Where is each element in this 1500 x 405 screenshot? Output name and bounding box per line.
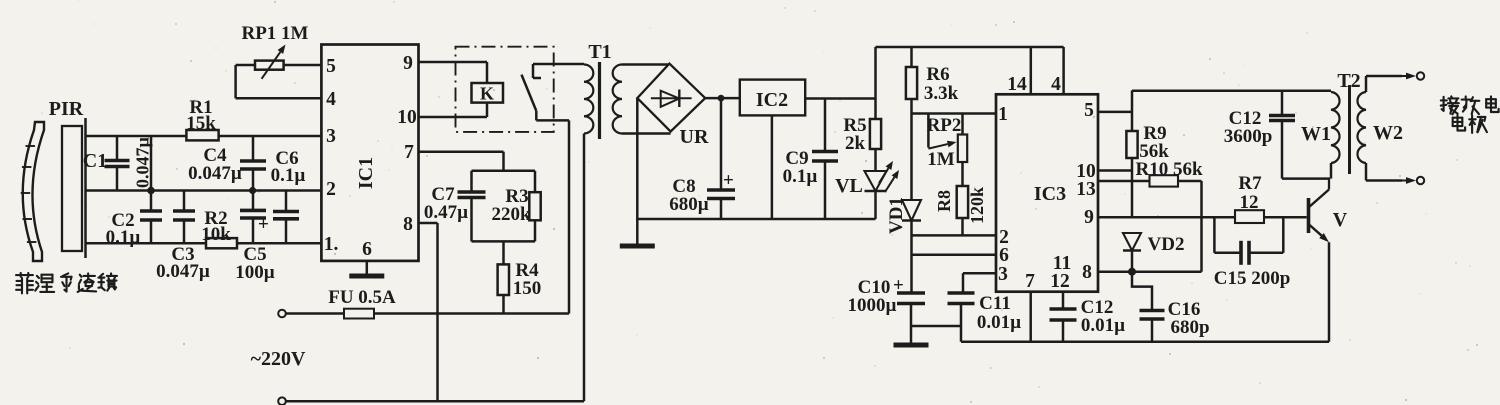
- label R5 2k: [843, 115, 866, 154]
- resistor R5: [870, 99, 881, 150]
- wire W1 bottom to collector: [1282, 177, 1330, 180]
- capacitor C7 / resistor R3 parallel block: [458, 171, 541, 242]
- label R7 12: [1238, 173, 1262, 213]
- wire IC3 pin14 stub: [1030, 47, 1033, 94]
- svg-text:150: 150: [513, 278, 542, 299]
- ground at IC1 pin6: [349, 261, 384, 276]
- wire relay contact to T1 primary: [533, 63, 584, 66]
- label R2 10k: [201, 208, 231, 245]
- svg-text:5: 5: [326, 56, 336, 77]
- capacitor C1: [105, 136, 130, 191]
- svg-text:5: 5: [1084, 100, 1094, 121]
- svg-text:R6: R6: [926, 64, 949, 85]
- label Fresnel lens (Chinese): [16, 273, 117, 293]
- wire pin3 rail: [86, 135, 322, 138]
- svg-text:220k: 220k: [491, 204, 531, 225]
- svg-text:2: 2: [326, 179, 336, 200]
- svg-text:0.01µ: 0.01µ: [977, 312, 1021, 333]
- Fresnel lens: [21, 122, 44, 261]
- wire supply top rail: [876, 47, 1064, 99]
- transistor V: [1309, 179, 1330, 342]
- terminal electrode top: [1402, 72, 1424, 79]
- wire IC3 pin9 to transistor base: [1098, 216, 1307, 219]
- relay K enclosure dash-dot box: [456, 47, 554, 132]
- svg-text:14: 14: [1007, 74, 1027, 95]
- PIR sensor: [62, 118, 86, 258]
- svg-text:+: +: [893, 275, 904, 296]
- svg-text:R8: R8: [934, 190, 954, 212]
- label C9 0.1u: [783, 148, 818, 187]
- label C6 0.1u: [271, 148, 306, 186]
- svg-text:R7: R7: [1238, 173, 1262, 194]
- svg-text:0.47µ: 0.47µ: [424, 202, 468, 223]
- ground symbol at C10: [910, 326, 913, 343]
- svg-text:15k: 15k: [186, 113, 216, 134]
- op-amp IC1: [321, 45, 418, 261]
- capacitor C16: [1132, 272, 1165, 342]
- wire pin1 rail: [86, 242, 322, 245]
- svg-text:1M: 1M: [927, 149, 955, 170]
- svg-text:C1: C1: [83, 150, 107, 172]
- transformer T1 secondary winding: [613, 65, 671, 134]
- terminal AC line 2: [278, 397, 286, 405]
- svg-text:7: 7: [1025, 271, 1035, 292]
- wire IC1 pin7: [419, 152, 504, 171]
- wire IC3 pin13 / resistor R10: [1098, 175, 1202, 272]
- wire IC1 pin10 to relay coil: [419, 116, 488, 119]
- wire IC3 pin5: [1098, 90, 1132, 131]
- capacitor C10 electrolytic: [893, 275, 961, 326]
- svg-text:0.01µ: 0.01µ: [1081, 315, 1125, 336]
- bridge rectifier UR: [637, 64, 705, 132]
- svg-text:T1: T1: [588, 41, 611, 63]
- svg-text:PIR: PIR: [49, 98, 84, 120]
- svg-text:VD1: VD1: [886, 197, 907, 234]
- label C10 1000u: [848, 277, 897, 316]
- transformer T2 winding W2: [1357, 76, 1402, 181]
- svg-text:3.3k: 3.3k: [924, 83, 959, 104]
- svg-text:3: 3: [326, 126, 336, 147]
- wire relay contact to fuse line: [568, 120, 571, 313]
- svg-text:100µ: 100µ: [235, 262, 275, 283]
- svg-text:W1: W1: [1301, 123, 1331, 145]
- svg-text:9: 9: [1084, 207, 1094, 228]
- wire bridge output to IC2: [705, 95, 740, 102]
- svg-text:680µ: 680µ: [669, 194, 709, 215]
- svg-text:0.1µ: 0.1µ: [271, 165, 306, 186]
- resistor R8: [957, 186, 968, 235]
- transformer T2 winding W1: [1331, 92, 1340, 179]
- resistor R6: [906, 47, 917, 200]
- ground symbol at rectifier: [636, 219, 639, 244]
- label R3 220k: [491, 186, 531, 225]
- wire IC2 ground lead: [771, 115, 774, 219]
- capacitor C12 0.01u: [1050, 292, 1077, 342]
- svg-text:0.047µ: 0.047µ: [156, 261, 210, 282]
- label C5 100u: [235, 244, 275, 283]
- wire IC1 pin8 down: [419, 223, 438, 401]
- capacitor C15: [1214, 217, 1283, 265]
- capacitor C4: [240, 136, 266, 194]
- wire top right rail to T2: [1132, 90, 1331, 93]
- potentiometer RP2: [928, 114, 967, 187]
- svg-text:12: 12: [1240, 192, 1259, 213]
- svg-text:T2: T2: [1337, 70, 1360, 92]
- svg-text:9: 9: [403, 53, 413, 74]
- svg-text:3: 3: [998, 264, 1008, 285]
- wire IC3 pin3: [963, 273, 996, 293]
- svg-text:6: 6: [362, 239, 372, 260]
- svg-text:1000µ: 1000µ: [848, 295, 897, 316]
- svg-text:6: 6: [999, 245, 1009, 266]
- resistor R2: [206, 238, 237, 248]
- svg-text:0.047µ: 0.047µ: [133, 137, 153, 189]
- svg-text:FU 0.5A: FU 0.5A: [328, 287, 396, 308]
- label C16 680p: [1168, 299, 1210, 338]
- svg-text:13: 13: [1076, 179, 1096, 200]
- label C4 0.047u: [188, 145, 242, 184]
- wire IC2 output: [805, 97, 875, 100]
- label R4 150: [513, 260, 542, 299]
- capacitor C8 electrolytic: [707, 98, 735, 219]
- IC3 pin numbers: [998, 74, 1096, 292]
- wire IC3 pin1: [912, 112, 997, 115]
- wire IC3 pin10: [1098, 169, 1132, 172]
- label RP2 1M: [927, 115, 962, 170]
- svg-text:4: 4: [1051, 74, 1061, 95]
- svg-text:W2: W2: [1373, 122, 1403, 144]
- svg-text:1: 1: [998, 104, 1008, 125]
- transformer T1 primary winding: [584, 65, 593, 402]
- label C3 0.047u: [156, 244, 210, 282]
- capacitor C2: [140, 191, 162, 244]
- relay contact switch: [522, 64, 570, 120]
- capacitor C12 3600p: [1269, 91, 1295, 179]
- label C7 0.47u: [424, 184, 468, 223]
- fuse FU: [286, 309, 569, 319]
- resistor R7: [1235, 210, 1264, 223]
- potentiometer RP1: [236, 45, 322, 99]
- label R1 15k: [186, 97, 216, 134]
- label R8 120k rotated: [934, 187, 987, 224]
- capacitor C3: [173, 191, 195, 244]
- svg-text:+: +: [258, 214, 269, 235]
- diode VD1: [902, 200, 921, 293]
- label electrodes (Chinese): [1441, 96, 1499, 132]
- ground rail bottom: [636, 218, 875, 221]
- svg-text:VD2: VD2: [1148, 234, 1185, 255]
- wire IC3 pin8: [1098, 270, 1202, 273]
- capacitor C11: [948, 293, 975, 342]
- regulator IC2: [740, 80, 805, 116]
- svg-text:K: K: [480, 84, 494, 104]
- label C12 3600p: [1224, 108, 1273, 147]
- label C11 0.01u: [977, 293, 1021, 333]
- terminal AC line 1: [278, 310, 286, 318]
- wire IC3 pin4 stub: [1062, 47, 1065, 94]
- wire bottom rail right: [961, 340, 1329, 343]
- capacitor C6: [273, 191, 299, 244]
- svg-text:RP1 1M: RP1 1M: [241, 23, 308, 44]
- svg-text:~220V: ~220V: [251, 348, 306, 370]
- svg-text:10k: 10k: [201, 224, 231, 245]
- transformer T2 core: [1348, 85, 1351, 174]
- svg-text:IC2: IC2: [756, 89, 788, 111]
- svg-text:0.1µ: 0.1µ: [783, 166, 818, 187]
- resistor R4: [498, 241, 509, 313]
- svg-text:IC1: IC1: [355, 157, 377, 189]
- svg-text:0.1µ: 0.1µ: [106, 227, 141, 248]
- svg-text:UR: UR: [680, 126, 709, 148]
- capacitor C5 electrolytic: [240, 191, 269, 244]
- svg-text:V: V: [1333, 209, 1348, 231]
- svg-text:2k: 2k: [845, 133, 866, 154]
- svg-text:RP2: RP2: [927, 115, 962, 136]
- label C2 0.1u: [106, 210, 141, 248]
- wire vertical junction: [147, 136, 155, 194]
- wire bridge negative down: [636, 98, 639, 219]
- svg-text:120k: 120k: [967, 187, 987, 224]
- resistor R1: [186, 130, 218, 140]
- wire IC3 pin6: [912, 253, 997, 256]
- relay coil K: [472, 62, 504, 117]
- IC1 pin numbers: [324, 53, 417, 260]
- svg-text:C15 200p: C15 200p: [1214, 268, 1291, 289]
- terminal electrode bottom: [1402, 177, 1424, 184]
- svg-text:1.: 1.: [324, 234, 339, 255]
- svg-text:4: 4: [326, 89, 336, 110]
- svg-text:12: 12: [1050, 271, 1070, 292]
- resistor R9: [1126, 131, 1137, 217]
- svg-text:680p: 680p: [1170, 317, 1209, 338]
- svg-text:7: 7: [404, 142, 414, 163]
- label R9 56k: [1139, 123, 1169, 162]
- svg-text:10: 10: [397, 107, 417, 128]
- svg-text:8: 8: [1082, 262, 1092, 283]
- svg-text:R10 56k: R10 56k: [1135, 159, 1202, 180]
- wire AC line 2 bottom: [286, 400, 584, 403]
- label C12 0.01u: [1081, 297, 1126, 336]
- wire IC3 pin7 ground lead: [1029, 292, 1032, 342]
- wire IC1 pin9 to relay coil: [419, 61, 488, 64]
- svg-text:0.047µ: 0.047µ: [188, 163, 242, 184]
- diode VD2: [1123, 233, 1141, 276]
- wire pin2 rail: [86, 189, 322, 192]
- svg-text:8: 8: [403, 214, 413, 235]
- label R6 3.3k: [924, 64, 959, 104]
- svg-text:+: +: [723, 170, 734, 191]
- transformer T1 core: [598, 62, 601, 139]
- capacitor C9: [812, 99, 838, 220]
- wire IC3 pin2: [912, 234, 997, 237]
- timer IC3: [996, 94, 1098, 291]
- label C8 680u: [669, 176, 709, 215]
- svg-text:IC3: IC3: [1034, 183, 1066, 205]
- LED VL: [865, 149, 900, 219]
- svg-text:C11: C11: [979, 293, 1011, 314]
- svg-text:VL: VL: [835, 175, 863, 197]
- svg-text:3600p: 3600p: [1224, 126, 1273, 147]
